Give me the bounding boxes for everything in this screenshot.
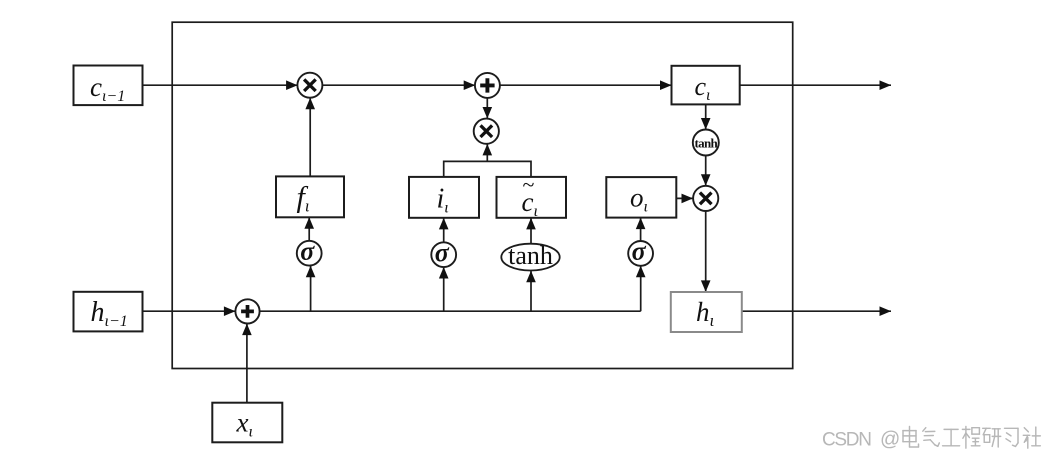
svg-text:tanh: tanh bbox=[508, 241, 553, 270]
svg-text:~: ~ bbox=[523, 172, 535, 197]
svg-text:σ: σ bbox=[632, 237, 647, 266]
svg-text:tanh: tanh bbox=[695, 136, 719, 151]
svg-text:σ: σ bbox=[300, 236, 315, 265]
svg-text:CSDN: CSDN bbox=[822, 429, 871, 450]
svg-text:σ: σ bbox=[435, 238, 450, 267]
svg-text:@: @ bbox=[880, 428, 900, 450]
